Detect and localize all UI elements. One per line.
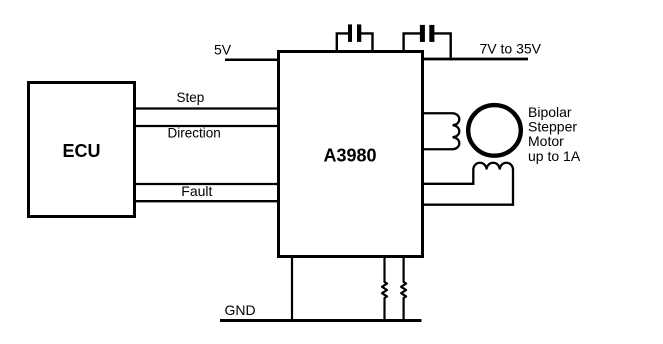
winding 1 (left coil of motor)	[453, 113, 460, 149]
svg-text:Bipolar: Bipolar	[528, 104, 572, 120]
A3980 block U1	[279, 52, 423, 257]
ECU block	[29, 83, 135, 217]
capacitor C1	[337, 24, 373, 53]
capacitor C2	[404, 25, 451, 61]
wire OUT1B	[421, 148, 453, 150]
svg-text:A3980: A3980	[323, 146, 376, 166]
sense resistor R2	[401, 256, 406, 321]
svg-text:7V to 35V: 7V to 35V	[480, 41, 542, 57]
svg-text:Stepper: Stepper	[528, 119, 577, 135]
svg-text:Motor: Motor	[528, 133, 564, 149]
wire OUT2A	[421, 170, 473, 184]
wire GND pin to ground rail	[291, 256, 293, 321]
wire Fault	[133, 183, 280, 185]
7V to 35V supply wire	[421, 58, 528, 61]
svg-text:Direction: Direction	[168, 126, 221, 141]
ground rail	[220, 319, 422, 322]
svg-text:Fault: Fault	[181, 183, 212, 199]
svg-text:5V: 5V	[214, 41, 232, 57]
svg-text:ECU: ECU	[62, 141, 100, 161]
5V supply wire	[225, 59, 280, 62]
sense resistor R1	[382, 256, 387, 321]
wire ECU line 4	[133, 200, 280, 202]
wire Direction	[133, 125, 280, 127]
wire OUT2B	[421, 170, 513, 205]
svg-text:GND: GND	[225, 302, 256, 318]
stepper motor body	[468, 105, 521, 156]
winding 2 (bottom coil of motor)	[473, 163, 513, 170]
svg-text:Step: Step	[177, 90, 205, 105]
wire Step	[133, 107, 280, 109]
wire OUT1A	[421, 112, 453, 114]
svg-text:up to 1A: up to 1A	[528, 148, 581, 164]
